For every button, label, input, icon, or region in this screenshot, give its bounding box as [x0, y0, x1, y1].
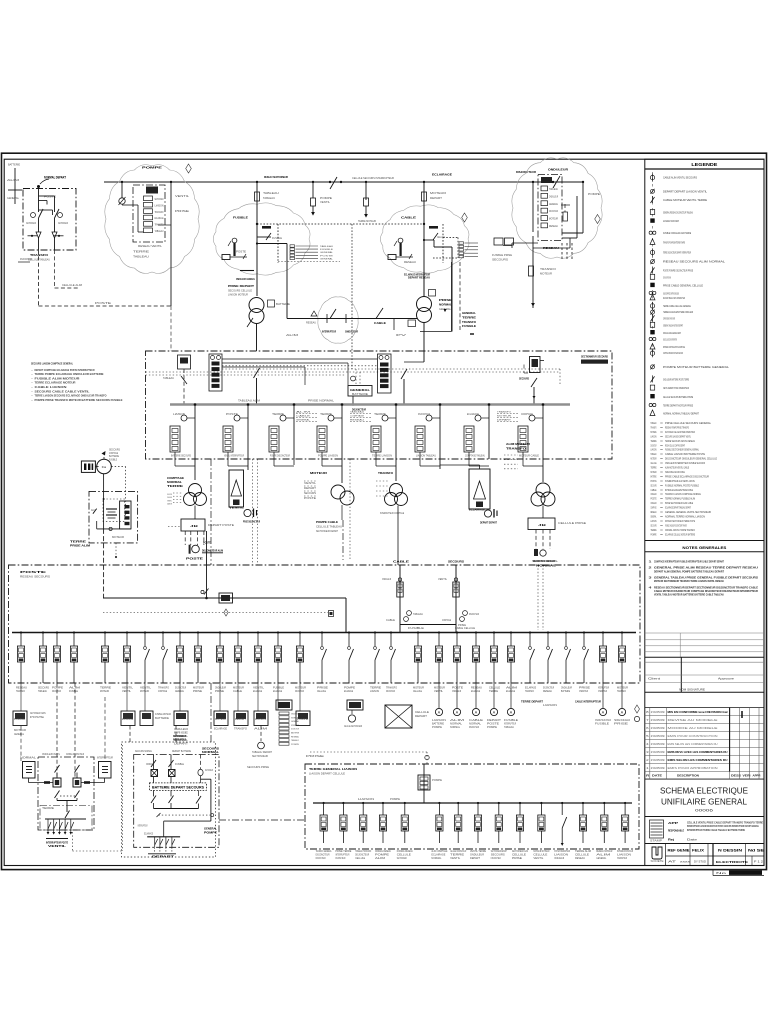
svg-text:CELLULE DISJONCTEUR: CELLULE DISJONCTEUR [450, 851, 466, 853]
svg-text:TRANSFO: TRANSFO [378, 471, 393, 475]
reference diamond bottom [635, 705, 640, 713]
reserve box with X [385, 705, 429, 728]
svg-text:FUSIBLE PRISE: FUSIBLE PRISE [492, 254, 512, 257]
UPS maintenance bypass dotted [157, 813, 214, 817]
svg-text:TABLEAU: TABLEAU [651, 421, 657, 425]
reference diamond 2 [462, 213, 468, 222]
svg-text:POSTE: POSTE [320, 255, 334, 257]
genset dotted feeders into TGBT [533, 559, 555, 630]
svg-text:CABLE CELLULE SECOURS INTERRUP: CABLE CELLULE SECOURS INTERRUPTEUR [663, 338, 677, 342]
svg-text:TRANSFO LIAISON COMPTAGE NORMA: TRANSFO LIAISON COMPTAGE NORMAL [665, 492, 701, 496]
svg-text:DEPART: DEPART [487, 719, 502, 722]
svg-text:RESEAU: RESEAU [306, 322, 316, 325]
svg-text:CABLE INTERRUPTEUR: CABLE INTERRUPTEUR [575, 700, 601, 704]
TGBT outgoing feeder 30 [598, 631, 609, 692]
svg-text:LIAISON: LIAISON [651, 434, 657, 438]
svg-text:LIAISON: LIAISON [432, 719, 447, 722]
TGBT outgoing feeder 16 [317, 631, 329, 692]
TGBT outgoing feeder 1 [16, 631, 27, 692]
MV feeder cubicle 6 [415, 403, 441, 466]
svg-text:R: R [646, 774, 649, 778]
UPS static switch panel [149, 783, 206, 791]
MV main busbar (gray) [170, 403, 570, 405]
TGBT outgoing feeder 5 [100, 631, 111, 692]
feeder3 cable down [293, 459, 295, 465]
svg-text:Client: Client [648, 677, 660, 681]
TR1 tap box [268, 300, 275, 307]
svg-text:TERRE LIAISON SECOURS ECLAIRAG: TERRE LIAISON SECOURS ECLAIRAGE ONDULEUR… [35, 394, 107, 398]
ATS output bus [42, 807, 86, 819]
svg-text:RESEAU: RESEAU [543, 690, 552, 693]
svg-text:NORMAL TERRE NORMAL LIAISON: NORMAL TERRE NORMAL LIAISON [665, 514, 705, 518]
svg-text:PRISE: PRISE [175, 210, 190, 213]
metering lamps right pair [595, 683, 630, 726]
svg-text:CELLULE PRISE: CELLULE PRISE [558, 522, 586, 525]
svg-text:MOTEUR: MOTEUR [14, 729, 26, 732]
svg-text:DISJONCTEUR: DISJONCTEUR [52, 690, 61, 693]
svg-text:COMPTAGE: COMPTAGE [109, 452, 118, 455]
svg-text:REF GENIE: REF GENIE [668, 849, 690, 853]
svg-text:SECTIONNEUR DEPART: SECTIONNEUR DEPART [316, 530, 338, 533]
svg-text:CELLULE: CELLULE [575, 855, 590, 857]
svg-text:PRISE CABLE ECLAIRAGE DISJONCT: PRISE CABLE ECLAIRAGE DISJONCTEUR [665, 474, 709, 478]
svg-text:SECOURS LIAISON COMPTAGE GENER: SECOURS LIAISON COMPTAGE GENERAL [31, 362, 73, 366]
svg-text:POSTE: POSTE [304, 498, 317, 500]
svg-text:INTERRUPTEUR: INTERRUPTEUR [598, 690, 607, 693]
svg-text:DISJONCTEUR ONDULEUR: DISJONCTEUR ONDULEUR [533, 559, 555, 563]
svg-text:TERRE: TERRE [167, 484, 183, 488]
svg-text:INTERRUPTEUR: INTERRUPTEUR [173, 738, 186, 742]
TGBT outgoing feeder 26 [525, 631, 536, 692]
svg-text:CABLE COMPTAGE COMPTAGE ONDULE: CABLE COMPTAGE COMPTAGE ONDULEUR [663, 291, 679, 295]
secondary outgoing feeder 2 [335, 802, 351, 860]
svg-text:TERRE: TERRE [374, 413, 387, 416]
UPS bypass return wire [164, 779, 211, 837]
svg-text:NORMAL RESEAU: NORMAL RESEAU [375, 850, 391, 853]
svg-text:FUSIBLE ONDULEUR ALIM TERRE: FUSIBLE ONDULEUR ALIM TERRE [663, 231, 691, 235]
svg-text:CELLULE: CELLULE [415, 711, 429, 714]
MV feeder cubicle 1 [170, 403, 196, 466]
svg-text:MOTEUR: MOTEUR [100, 690, 109, 693]
main riser through cloud3 [422, 181, 447, 296]
svg-text:MOTEUR: MOTEUR [215, 719, 226, 721]
svg-text:CELLULE: CELLULE [317, 690, 326, 693]
svg-text:COMPTAGE: COMPTAGE [158, 690, 167, 693]
svg-text:DISJONCTEUR: DISJONCTEUR [651, 443, 657, 447]
svg-text:FUSIBLE: FUSIBLE [272, 238, 282, 240]
svg-text:LIAISON TABLEAU: LIAISON TABLEAU [416, 455, 436, 458]
svg-text:TABLEAU: TABLEAU [413, 613, 423, 616]
terminal list stack [276, 700, 300, 746]
genset LV tie wire [286, 319, 417, 338]
svg-text:xxxx: xxxx [680, 861, 691, 864]
svg-text:CELLULE: CELLULE [413, 690, 422, 693]
TGBT outgoing feeder 28 [561, 631, 572, 692]
incomer breaker right (from cloud4) [519, 357, 544, 405]
svg-text:FUSIBLE: FUSIBLE [175, 764, 184, 766]
svg-text:LIAISON: LIAISON [155, 204, 164, 207]
svg-text:ECLAIRAGE: ECLAIRAGE [432, 173, 452, 177]
metering cabinet dash-dot box [23, 189, 76, 251]
svg-text:TRANSFO POMPE BATTERIE POMPE: TRANSFO POMPE BATTERIE POMPE [663, 240, 685, 244]
svg-text:ECLAIRAGE: ECLAIRAGE [155, 217, 164, 220]
svg-text:POMPE: POMPE [375, 855, 390, 857]
svg-text:ECLAIRAGE DEPART TABLEAU DEPAR: ECLAIRAGE DEPART TABLEAU DEPART [665, 506, 691, 510]
secondary outgoing feeder 14 [596, 802, 612, 860]
svg-text:COMPTAGE: COMPTAGE [167, 476, 184, 480]
cloud1 CT circle with earth [119, 182, 126, 205]
genset labels [306, 322, 358, 334]
reference diamond 1 [186, 164, 192, 173]
svg-text:ALIM: ALIM [375, 857, 385, 860]
svg-text:CABLE LIAISON: CABLE LIAISON [35, 385, 67, 389]
dashed tie to UPS [73, 745, 123, 851]
metering branch B switch [39, 196, 69, 250]
svg-text:TRANSFO: TRANSFO [540, 268, 556, 271]
svg-text:TRANSFO GENERAL: TRANSFO GENERAL [316, 850, 333, 853]
svg-text:SECOURS PRISE: SECOURS PRISE [247, 766, 269, 769]
svg-text:INTERRUPTEUR: INTERRUPTEUR [97, 757, 113, 760]
outgoing label box 2 [121, 711, 135, 726]
cloud2 metering dotted bundle [256, 223, 424, 369]
svg-text:EMIS POUR APPROBATION: EMIS POUR APPROBATION [668, 766, 718, 770]
svg-text:ECLAIRAGE: ECLAIRAGE [467, 413, 479, 416]
svg-text:ONDULEUR: ONDULEUR [452, 690, 461, 693]
svg-text:DISJONCTEUR ALIM: DISJONCTEUR ALIM [202, 549, 224, 553]
svg-text:SECOURS TABLEAU VENTIL INTERRU: SECOURS TABLEAU VENTIL INTERRUPTEUR [663, 296, 685, 300]
svg-text:MOTEUR SECTIONNEUR TERRE POSTE: MOTEUR SECTIONNEUR TERRE POSTE [665, 519, 695, 523]
svg-text:CELLULE: CELLULE [651, 461, 657, 465]
svg-text:POMPE: POMPE [320, 197, 332, 200]
secondary board busbar [313, 802, 632, 804]
svg-text:POSTE: POSTE [487, 724, 500, 726]
distribution transformer TRL1 [304, 459, 354, 533]
notes generales paragraphs [649, 560, 759, 597]
svg-text:F 1 2: F 1 2 [754, 860, 764, 864]
svg-text:NORMAL: NORMAL [450, 726, 461, 729]
protection relay module B [378, 354, 392, 393]
TR2 side labels [439, 298, 452, 312]
svg-text:DEPART: DEPART [470, 857, 481, 860]
svg-text:LIAISON: LIAISON [255, 718, 266, 721]
TGBT outgoing feeder 7 [140, 631, 152, 692]
cloud1 CM box [146, 187, 158, 194]
TGBT outgoing feeder 15 [295, 631, 306, 692]
svg-text:TERRE DEPART: TERRE DEPART [521, 700, 543, 704]
svg-text:CABLE: CABLE [393, 560, 409, 564]
TR2 incomer switch [401, 351, 424, 404]
svg-text:RESEAU POMPE PRISE TRANSFO: RESEAU POMPE PRISE TRANSFO [665, 425, 689, 429]
svg-text:DEPART COMPTAGE ECLAIRAGE POST: DEPART COMPTAGE ECLAIRAGE POSTE INTERRUP… [35, 368, 95, 372]
reference diamond 3 [595, 215, 601, 224]
svg-text:INTERRUPTEUR ALIM VENTIL VENTI: INTERRUPTEUR ALIM VENTIL VENTIL [665, 479, 695, 483]
svg-text:DISJONCTEUR: DISJONCTEUR [418, 413, 430, 416]
svg-text:NORMAL: NORMAL [439, 303, 452, 307]
svg-text:ECLAIRAGE CELLULE MOTEUR BATTE: ECLAIRAGE CELLULE MOTEUR BATTERIE [665, 532, 695, 536]
TGBT outgoing feeder 6 [122, 631, 134, 692]
svg-text:TABLEAU: TABLEAU [350, 411, 365, 414]
secondary board incomer breaker [418, 764, 442, 803]
auxiliary transformer cubicle 2 (feeder6) [440, 459, 497, 525]
svg-text:GENERAL: GENERAL [204, 827, 217, 831]
svg-text:VENTIL TABLEAU MOTEUR BATTERIE: VENTIL TABLEAU MOTEUR BATTERIE BATTERIE … [654, 593, 724, 597]
wire dashed from metering down [38, 250, 40, 306]
svg-text:DISJONCTEUR: DISJONCTEUR [549, 211, 558, 213]
svg-text:RESPONSABLE: RESPONSABLE [668, 829, 684, 833]
cloud4 fuse stub [561, 204, 570, 221]
TGBT outgoing feeder 2 [38, 631, 49, 692]
svg-text:TRANSFO: TRANSFO [30, 253, 49, 257]
svg-text:ALIM: ALIM [296, 411, 310, 414]
svg-text:ECLAIRAGE: ECLAIRAGE [469, 508, 485, 512]
svg-text:POMPE: POMPE [291, 744, 300, 746]
TGBT outgoing feeder 14 [273, 631, 284, 692]
transformer TR2 (2-winding) [417, 272, 432, 323]
svg-text:SECOURS CABLE CABLE VENTIL: SECOURS CABLE CABLE VENTIL [35, 389, 91, 393]
svg-text:BATTERIE: BATTERIE [561, 690, 570, 693]
svg-text:POSTE: POSTE [95, 302, 112, 305]
svg-text:DISJONCTEUR ONDULEUR GENERAL C: DISJONCTEUR ONDULEUR GENERAL CELLULE [665, 457, 717, 461]
svg-text:FUSIBLE SECTIONNEUR GENERAL NO: FUSIBLE SECTIONNEUR GENERAL NORMAL [665, 448, 699, 452]
svg-text:1%/05/09: 1%/05/09 [651, 766, 666, 770]
svg-text:CABLE: CABLE [401, 216, 416, 220]
rectifier box [81, 461, 98, 472]
svg-text:NORMAL RESEAU: NORMAL RESEAU [397, 850, 413, 853]
svg-text:SCHEMA ELECTRIQUE: SCHEMA ELECTRIQUE [660, 787, 749, 796]
svg-text:1%/05/09: 1%/05/09 [651, 758, 666, 762]
notes generales header [645, 540, 764, 542]
svg-text:ALIM: ALIM [450, 719, 464, 722]
svg-text:COMPTAGE INTERRUPTEUR FUSIBLE: COMPTAGE INTERRUPTEUR FUSIBLE INTERRUPTE… [654, 560, 724, 564]
ATS source box A [20, 757, 54, 784]
svg-text:GENERAL TABLEAU MOTEUR DEPART: GENERAL TABLEAU MOTEUR DEPART [663, 323, 683, 327]
svg-text:ELECTRICITE: ELECTRICITE [716, 860, 748, 864]
TGBT outgoing feeder 23 [471, 631, 482, 692]
TGBT dash-dot enclosure [9, 565, 641, 683]
svg-text:PRISE NORMAL: PRISE NORMAL [308, 400, 335, 403]
svg-text:POSTE POMPE DISJONCTEUR PRISE: POSTE POMPE DISJONCTEUR PRISE [663, 269, 693, 273]
genset tie disconnect contacts [311, 309, 346, 323]
svg-text:GENERAL: GENERAL [320, 251, 334, 254]
svg-text:1%/05/09: 1%/05/09 [651, 718, 666, 722]
MV switchgear dash-dot enclosure [146, 351, 613, 459]
svg-text:ONDULEUR VENTIL: ONDULEUR VENTIL [42, 753, 61, 756]
svg-text:BATTERIE: BATTERIE [109, 455, 119, 458]
svg-text:GENERAL: GENERAL [549, 203, 559, 206]
svg-text:DISJONCTEUR: DISJONCTEUR [469, 727, 479, 729]
svg-text:ECLAIRAGE: ECLAIRAGE [273, 690, 282, 693]
TGBT outgoing feeder 11 [215, 631, 226, 692]
svg-text:Approuve: Approuve [718, 677, 735, 681]
svg-text:POSTE: POSTE [226, 413, 239, 416]
svg-text:EMIS REVU AVEC LES COMMENTAIRE: EMIS REVU AVEC LES COMMENTAIRES DU [668, 750, 728, 754]
aux dark box with meter [344, 700, 363, 728]
svg-text:ONDULEUR: ONDULEUR [548, 168, 569, 172]
legend abbreviation list [651, 421, 718, 536]
svg-text:MOTEUR SECTIONNEUR TRANSFO TER: MOTEUR SECTIONNEUR TRANSFO TERRE LIAISON… [654, 579, 724, 583]
svg-text:VENTIL: VENTIL [320, 201, 331, 204]
secondary outgoing feeder 15 [617, 802, 633, 860]
svg-text:BATTERIE: BATTERIE [155, 717, 169, 720]
svg-text:GENERAL GENERAL VENTIL SECTION: GENERAL GENERAL VENTIL SECTIONNEUR [665, 510, 711, 514]
secondary outgoing feeder 8 [470, 802, 486, 860]
svg-text:TRANSFO: TRANSFO [462, 320, 476, 324]
svg-text:POMPE: POMPE [390, 798, 400, 801]
MV top bus 20kV [104, 181, 584, 183]
svg-text:BATTERIE: BATTERIE [8, 163, 20, 167]
svg-text:VENTIL TERRE: VENTIL TERRE [470, 851, 486, 853]
svg-text:ONDULEUR: ONDULEUR [382, 578, 391, 581]
cloud4 cubicle rows [541, 177, 559, 228]
TGBT outgoing feeder 20 [413, 631, 424, 692]
cloud genset network [318, 297, 358, 343]
cloud3 earthing antenna [394, 238, 403, 256]
svg-text:SECOURS: SECOURS [519, 377, 529, 381]
MV feeder cubicle 8 [497, 403, 544, 466]
svg-text:MOTEUR: MOTEUR [497, 416, 512, 418]
svg-text:SECTIONNEUR: SECTIONNEUR [173, 734, 186, 738]
svg-text:NORMAL ECLAIRAGE GENERAL DEPAR: NORMAL ECLAIRAGE GENERAL DEPART [663, 331, 681, 335]
TGBT outgoing feeder 24 [489, 631, 500, 692]
TGBT outgoing feeder 12 [233, 631, 244, 692]
svg-text:TERRE: TERRE [133, 251, 150, 254]
wire TR2 to switchgear [423, 323, 425, 352]
svg-text:SECTIONNEUR CELLULE BATTERIE I: SECTIONNEUR CELLULE BATTERIE INTERRUPTEU… [665, 430, 695, 434]
svg-text:BATTERIE: BATTERIE [352, 393, 369, 396]
svg-text:CELLULE SECTIONNEUR: CELLULE SECTIONNEUR [344, 725, 362, 728]
TGBT outgoing feeder 8 [158, 631, 169, 692]
main riser through cloud2 [255, 175, 289, 296]
charger sub-box [120, 501, 131, 529]
svg-text:PRISE: PRISE [614, 724, 629, 726]
svg-text:TRANSFO: TRANSFO [617, 690, 626, 693]
svg-text:TERRE: TERRE [462, 315, 476, 319]
svg-text:BATTERIE: BATTERIE [432, 723, 445, 726]
distribution transformer T1 (3-winding) [167, 459, 207, 506]
svg-text:BATTERIE DISJONCTEUR: BATTERIE DISJONCTEUR [617, 850, 633, 853]
svg-text:SECTIONNEUR: SECTIONNEUR [205, 770, 213, 772]
genset enclosure lines [420, 262, 452, 332]
dashed riser continuation cloud1 [170, 306, 172, 351]
svg-text:BATTERIE SECOURS: BATTERIE SECOURS [171, 455, 191, 458]
svg-text:AT: AT [668, 860, 677, 864]
ATS dash-dot enclosure [38, 757, 94, 830]
svg-text:CELLULE ALIM: CELLULE ALIM [62, 284, 82, 287]
svg-text:TRANSFO: TRANSFO [497, 411, 511, 414]
svg-text:CABLE ALIM VENTIL SECOURS: CABLE ALIM VENTIL SECOURS [663, 176, 697, 180]
svg-text:GENERAL: GENERAL [596, 857, 607, 860]
svg-text:POMPE LIAISON: POMPE LIAISON [318, 455, 338, 458]
svg-text:SECOURS: SECOURS [448, 560, 464, 564]
svg-text:POSTE: POSTE [236, 252, 247, 254]
svg-text:RESEAU: RESEAU [651, 510, 657, 514]
svg-text:POMPE CABLE: POMPE CABLE [316, 520, 338, 524]
svg-text:FUSIBLE NORMAL POSTE FUSIBLE: FUSIBLE NORMAL POSTE FUSIBLE [665, 483, 699, 487]
cloud1 riser junction [170, 181, 172, 183]
svg-text:DISJONCTEUR: DISJONCTEUR [167, 494, 172, 496]
svg-text:LIAISON DEPART CELLULE: LIAISON DEPART CELLULE [309, 773, 345, 776]
svg-text:SECTIONNEUR: SECTIONNEUR [26, 222, 36, 225]
svg-text:REVISE AU MODELE: REVISE AU MODELE [668, 718, 719, 722]
svg-text:SECOURS: SECOURS [651, 523, 657, 527]
UPS module B [169, 755, 185, 784]
svg-text:NORMAL: NORMAL [536, 564, 557, 568]
svg-text:DEPART: DEPART [152, 854, 175, 858]
svg-text:STAMP: STAMP [650, 840, 663, 843]
svg-text:FUSIBLE: FUSIBLE [320, 249, 334, 251]
svg-text:INTERRUPTEUR: INTERRUPTEUR [335, 855, 349, 857]
svg-text:TERRE POMPE ECLAIRAGE ONDULEUR: TERRE POMPE ECLAIRAGE ONDULEUR BATTERIE [35, 372, 104, 376]
svg-text:VENTIL: VENTIL [304, 483, 317, 485]
svg-text:VENTIL: VENTIL [533, 858, 544, 860]
svg-text:COMPTAGE: COMPTAGE [442, 619, 451, 622]
svg-text:ECLAIRAGE: ECLAIRAGE [431, 854, 445, 857]
svg-text:Rej: Rej [668, 838, 674, 842]
svg-text:DEPART DEPART LIAISON VENTIL: DEPART DEPART LIAISON VENTIL [663, 189, 707, 193]
svg-text:TERRE: TERRE [651, 528, 657, 532]
svg-text:FUSIBLE: FUSIBLE [595, 724, 610, 726]
svg-text:FUSIBLE: FUSIBLE [233, 216, 248, 220]
svg-text:VENTIL INTERRUPTEUR: VENTIL INTERRUPTEUR [224, 455, 244, 458]
svg-text:MOTEUR: MOTEUR [140, 690, 149, 693]
UPS inner dash-dot enclosure [134, 755, 219, 848]
legend symbol list [649, 172, 729, 416]
notes list block left of switchgear [31, 362, 123, 402]
svg-text:POSTE: POSTE [651, 497, 657, 501]
drawing sheet inner border [4, 159, 764, 865]
TGBT outgoing feeder 13 [253, 631, 265, 692]
MV feeder cubicle 7 [464, 403, 490, 466]
svg-text:GENERAL: GENERAL [651, 514, 657, 518]
svg-text:ALIM GENERAL TRANSFO DEPART: ALIM GENERAL TRANSFO DEPART [663, 219, 679, 223]
svg-text:TERRE: TERRE [651, 466, 657, 470]
cloud3 riser taps [423, 226, 452, 332]
svg-text:RESEAU: RESEAU [404, 261, 416, 264]
svg-text:TRANSFO: TRANSFO [525, 690, 534, 693]
svg-text:RESEAU: RESEAU [350, 419, 365, 422]
svg-text:MOTEUR: MOTEUR [112, 536, 124, 539]
svg-text:GENERAL: GENERAL [7, 196, 20, 200]
svg-text:ONDULEUR GENERAL: ONDULEUR GENERAL [236, 277, 255, 281]
cloud4 dashed outgoing stubs [562, 243, 572, 259]
svg-text:TERRE ONDULEUR: TERRE ONDULEUR [614, 720, 630, 722]
svg-text:TERRE DISJONCTEUR DEPART INTER: TERRE DISJONCTEUR DEPART INTERRUPTEUR [663, 250, 691, 254]
svg-text:DISJONCTEUR: DISJONCTEUR [291, 729, 299, 731]
UPS joining tie [154, 803, 199, 809]
wires from TGBT to label boxes [21, 683, 300, 711]
DC dotted sense wire [111, 467, 125, 521]
secondary outgoing feeder 7 [450, 802, 466, 860]
cloud utility network 2 [213, 203, 310, 275]
svg-text:TABLEAU DEPART: TABLEAU DEPART [252, 751, 273, 754]
svg-text:FUSIBLE: FUSIBLE [408, 627, 425, 630]
svg-text:BATTERIE: BATTERIE [276, 303, 290, 306]
svg-text:SECOURS: SECOURS [202, 747, 219, 751]
TGBT outgoing feeder 21 [434, 631, 445, 692]
svg-text:1%/05/09: 1%/05/09 [651, 734, 666, 738]
svg-text:PRISE CELLULE SECOURS GENERAL: PRISE CELLULE SECOURS GENERAL [665, 421, 712, 425]
cloud utility network 3 [380, 205, 469, 273]
MV feeder cubicle 3 [269, 403, 295, 466]
UPS outer dotted enclosure [122, 742, 216, 857]
svg-text:POMPE: POMPE [432, 779, 442, 782]
svg-text:FUSIBLE: FUSIBLE [109, 459, 117, 461]
svg-text:TABLEAU TRANSFO: TABLEAU TRANSFO [355, 850, 371, 853]
svg-text:ECLAIRAGE: ECLAIRAGE [471, 690, 480, 693]
svg-text:RESEAU CELLULE COMPTAGE DEPART: RESEAU CELLULE COMPTAGE DEPART [665, 443, 685, 447]
svg-text:SECOURS: SECOURS [651, 483, 657, 487]
bus drop with fuse disconnect F1 [311, 181, 333, 216]
